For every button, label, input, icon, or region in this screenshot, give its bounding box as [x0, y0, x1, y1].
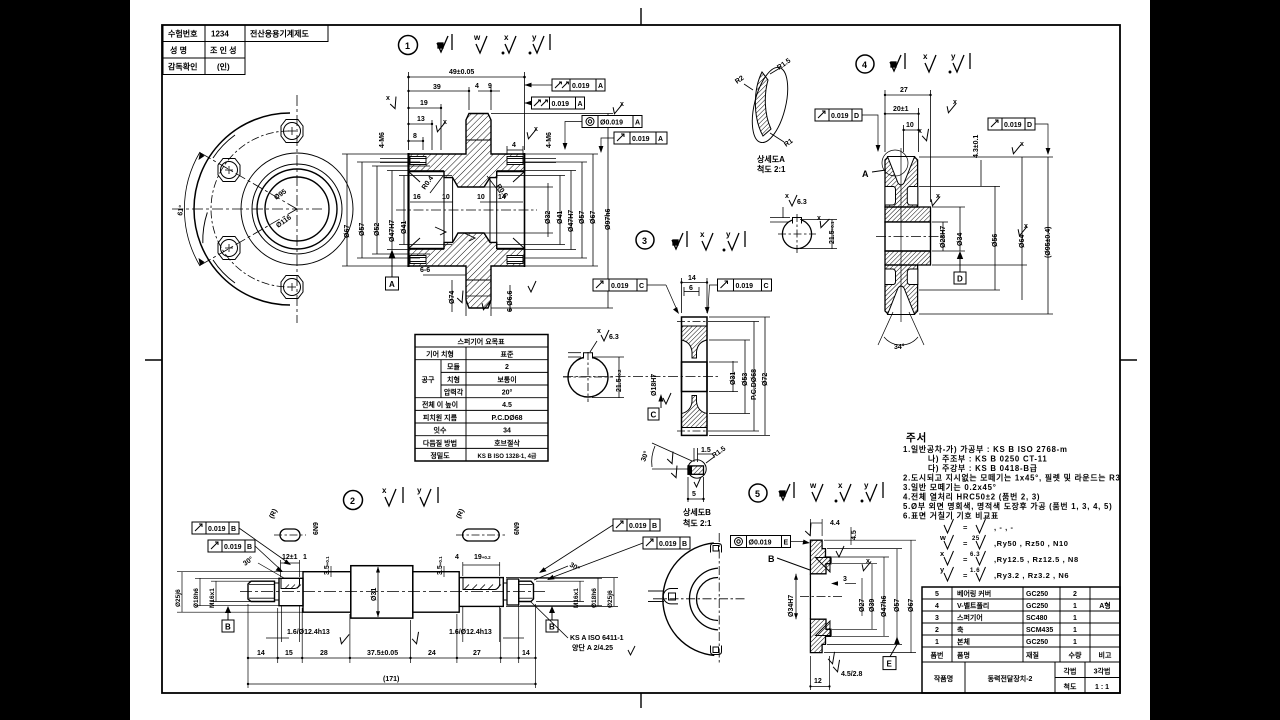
part2 left end dims: [177, 572, 310, 613]
svg-text:14: 14: [257, 650, 265, 657]
svg-text:4.4: 4.4: [830, 520, 840, 527]
drawing frame border: [162, 25, 1120, 693]
svg-text:A: A: [389, 280, 395, 289]
svg-text:Ø32: Ø32: [545, 211, 552, 224]
chamfer diagonals on end bores: [409, 172, 525, 249]
part marker 3: [636, 231, 654, 249]
svg-text:상세도B: 상세도B: [683, 507, 711, 517]
svg-text:0.019: 0.019: [659, 541, 677, 548]
A leader: [872, 170, 886, 172]
svg-text:보통이: 보통이: [497, 375, 516, 384]
bore: [885, 222, 931, 251]
part1 left diameter dim stack: [342, 154, 452, 266]
part5 gdt frame concentricity: [731, 536, 811, 548]
svg-text:Ø56: Ø56: [992, 234, 999, 247]
groove right: [503, 583, 507, 600]
O18 journal: [279, 578, 303, 605]
part3 surface symbols: [672, 230, 745, 251]
svg-text:x: x: [620, 101, 624, 108]
part1 right diameter dim stack: [484, 114, 613, 309]
svg-text:3각법: 3각법: [1094, 667, 1111, 676]
svg-text:1.일반공차-가) 가공부 : KS B ISO 2768-: 1.일반공차-가) 가공부 : KS B ISO 2768-m: [903, 444, 1068, 454]
svg-text:KS B ISO 1328-1, 4급: KS B ISO 1328-1, 4급: [478, 452, 537, 460]
svg-text:4-M6: 4-M6: [379, 132, 386, 148]
svg-text:Ø18h6: Ø18h6: [193, 588, 200, 608]
svg-text:B: B: [682, 541, 687, 548]
svg-text:x: x: [386, 95, 390, 102]
axis centerline: [563, 376, 720, 378]
hub band: [885, 207, 931, 222]
svg-text:Ø74: Ø74: [449, 291, 456, 304]
part2 gdt frames left: [192, 522, 291, 565]
svg-text:6N9: 6N9: [514, 522, 521, 535]
svg-text:Ø97h6: Ø97h6: [605, 208, 612, 230]
svg-text:양단 A 2/4.25: 양단 A 2/4.25: [572, 643, 613, 652]
part3 gear section: [563, 317, 720, 435]
svg-text:P.C.DØ68: P.C.DØ68: [751, 369, 758, 400]
part2 B datum flags: [222, 606, 558, 632]
svg-text:주서: 주서: [906, 431, 927, 444]
svg-text:x: x: [817, 215, 821, 222]
bottom rim/web hatched: [682, 396, 708, 428]
svg-text:20±1: 20±1: [893, 106, 909, 113]
part2 keyway ovals top views: [274, 529, 505, 541]
svg-text:본체: 본체: [957, 637, 970, 646]
parts list table: [922, 587, 1120, 693]
svg-text:16: 16: [413, 194, 421, 201]
svg-text:y: y: [951, 52, 956, 61]
svg-text:9: 9: [488, 83, 492, 90]
svg-text:베어링 커버: 베어링 커버: [957, 589, 991, 598]
gdt frame 2: [525, 97, 585, 109]
svg-text:x: x: [838, 481, 843, 490]
spur gear spec table: [415, 335, 548, 462]
part4 groove angle callout: [878, 312, 924, 345]
part4 right dim stack: [919, 157, 1053, 314]
svg-text:Ø18h6: Ø18h6: [591, 588, 598, 608]
roughness comparison rows: [944, 519, 986, 581]
R0.4 R0.6 leaders: [430, 176, 500, 193]
svg-text:B: B: [231, 526, 236, 533]
svg-text:x: x: [918, 128, 922, 135]
svg-text:조 인 성: 조 인 성: [210, 45, 237, 55]
svg-text:20°: 20°: [502, 389, 513, 397]
top bolt notch: [711, 544, 722, 553]
svg-text:호브절삭: 호브절삭: [494, 438, 520, 447]
svg-text:A: A: [862, 169, 869, 179]
svg-text:B: B: [247, 544, 252, 551]
part1 bottom dims: [423, 270, 510, 316]
svg-text:19+0.2: 19+0.2: [474, 554, 491, 561]
svg-text:Ø41: Ø41: [401, 221, 408, 234]
svg-text:표준: 표준: [501, 351, 514, 359]
top rim hatched: [885, 157, 918, 207]
svg-text:Ø47H7: Ø47H7: [568, 210, 575, 232]
svg-text:GC250: GC250: [1026, 591, 1048, 598]
svg-text:B: B: [768, 554, 775, 564]
part5 E datum flag: [883, 637, 900, 670]
outer edges: [682, 317, 708, 435]
svg-text:19: 19: [420, 100, 428, 107]
svg-text:(인): (인): [217, 62, 230, 72]
svg-text:1: 1: [1073, 615, 1077, 622]
svg-text:Ø31: Ø31: [371, 588, 378, 601]
svg-text:1: 1: [1073, 627, 1077, 634]
svg-text:GC250: GC250: [1026, 603, 1048, 610]
centering tick top: [640, 8, 642, 25]
top rim/web hatched: [682, 326, 708, 358]
svg-text:작품명: 작품명: [934, 674, 953, 683]
part4 top dims: [885, 90, 931, 202]
part3 bore label and datum C: [648, 374, 671, 420]
svg-text:D: D: [1027, 122, 1032, 129]
bolt boss top: [281, 120, 303, 143]
svg-text:0.019: 0.019: [632, 136, 650, 143]
svg-text:피치원 지름: 피치원 지름: [423, 413, 458, 422]
svg-text:Ø47H7: Ø47H7: [389, 220, 396, 242]
svg-text:잇수: 잇수: [434, 426, 447, 435]
svg-text:34: 34: [503, 428, 511, 435]
svg-text:1: 1: [303, 554, 307, 561]
outer rim arc: [194, 113, 290, 305]
svg-text:A: A: [635, 120, 640, 127]
svg-text:, - , -: , - , -: [994, 523, 1014, 532]
left grub boss: [663, 589, 678, 604]
svg-text:5: 5: [692, 491, 696, 498]
svg-text:(Ø95±0.4): (Ø95±0.4): [1045, 227, 1052, 258]
svg-text:공구: 공구: [422, 376, 435, 384]
bolt boss bottom: [281, 276, 303, 299]
part marker 4: [856, 55, 874, 73]
O24: [303, 572, 351, 613]
svg-text:x: x: [785, 193, 789, 200]
svg-text:2: 2: [505, 364, 509, 371]
svg-text:3: 3: [843, 576, 847, 583]
gdt frame 4: [599, 132, 667, 153]
svg-text:y: y: [940, 565, 945, 574]
svg-text:4: 4: [512, 142, 516, 149]
part2 right end dims: [506, 578, 618, 607]
svg-text:모듈: 모듈: [447, 362, 460, 371]
svg-text:y: y: [532, 33, 537, 42]
svg-text:Ø67: Ø67: [590, 211, 597, 224]
svg-text:척도: 척도: [1064, 682, 1077, 691]
svg-text:w: w: [939, 533, 946, 542]
part5 Ø34H7 dim: [788, 574, 798, 619]
svg-text:6.3: 6.3: [609, 334, 619, 341]
svg-text:A: A: [658, 136, 663, 143]
svg-text:10: 10: [442, 194, 450, 201]
svg-text:6-Ø6.6: 6-Ø6.6: [507, 290, 514, 312]
svg-text:Ø25j6: Ø25j6: [175, 589, 182, 607]
part1 hub section view: [396, 114, 537, 309]
svg-text:1.6/Ø12.4h13: 1.6/Ø12.4h13: [449, 629, 492, 636]
V groove bottom (white): [888, 286, 915, 315]
svg-text:C: C: [651, 411, 657, 420]
part4 gdt frame right: [988, 118, 1050, 155]
svg-text:상세도A: 상세도A: [757, 154, 785, 164]
centering tick left: [145, 359, 162, 361]
svg-text:x: x: [1024, 223, 1028, 230]
svg-text:E: E: [784, 540, 789, 547]
svg-text:x: x: [953, 99, 957, 106]
bottom rim hatched: [885, 265, 918, 314]
svg-text:C: C: [764, 283, 769, 290]
svg-text:x: x: [700, 230, 705, 239]
svg-text:0.019: 0.019: [611, 283, 629, 290]
svg-text:B: B: [225, 623, 231, 632]
svg-text:0.019: 0.019: [1004, 122, 1022, 129]
svg-text:E: E: [887, 660, 893, 669]
part4 surface symbols: [890, 52, 970, 73]
svg-text:다듬질 방법: 다듬질 방법: [423, 438, 457, 447]
svg-text:B: B: [652, 523, 657, 530]
svg-text:=: =: [963, 555, 968, 564]
svg-text:스퍼기어: 스퍼기어: [957, 613, 983, 622]
svg-text:P.C.DØ68: P.C.DØ68: [492, 415, 523, 422]
keyway section: [459, 578, 503, 607]
svg-text:재질: 재질: [1026, 651, 1039, 660]
part2 bottom dims: [248, 604, 536, 688]
svg-text:3: 3: [642, 236, 647, 246]
svg-text:x: x: [534, 126, 538, 133]
svg-text:Ø57: Ø57: [359, 223, 366, 236]
svg-text:A형: A형: [1099, 601, 1111, 610]
svg-text:품명: 품명: [957, 651, 970, 660]
svg-text:34°: 34°: [894, 343, 905, 351]
part2 O31 dim: [371, 567, 380, 618]
bolt boss upper-left: [218, 159, 240, 182]
svg-text:Ø0.019: Ø0.019: [600, 120, 623, 127]
svg-text:13: 13: [417, 116, 425, 123]
pitch lines: [677, 321, 712, 323]
part1 scattered surface marks: [388, 97, 622, 311]
exam header table: [163, 25, 328, 75]
svg-text:4.5/2.8: 4.5/2.8: [841, 671, 863, 678]
V groove top (white): [888, 157, 915, 186]
lower hub band: [885, 251, 931, 265]
svg-text:49±0.05: 49±0.05: [449, 69, 474, 76]
svg-text:M16x1: M16x1: [573, 588, 580, 608]
svg-text:y: y: [864, 481, 869, 490]
centering tick right: [1120, 359, 1137, 361]
svg-text:(171): (171): [383, 676, 399, 683]
part marker 5: [749, 484, 767, 502]
svg-text:1.6: 1.6: [970, 568, 980, 574]
svg-text:감독확인: 감독확인: [168, 62, 197, 72]
svg-text:x: x: [936, 193, 940, 200]
svg-text:D: D: [957, 275, 963, 284]
gdt frame 1: [525, 79, 606, 91]
svg-text:4.5: 4.5: [851, 530, 858, 540]
flange centerlines: [172, 95, 322, 323]
part3 gdt frame left: [593, 279, 679, 314]
part4 gdt frame left: [815, 109, 880, 152]
svg-text:1.6/Ø12.4h13: 1.6/Ø12.4h13: [287, 629, 330, 636]
svg-text:21.5+0.1: 21.5+0.1: [829, 221, 836, 244]
svg-text:C: C: [639, 283, 644, 290]
svg-text:수험번호: 수험번호: [168, 29, 198, 39]
svg-text:=: =: [963, 539, 968, 548]
svg-text:39: 39: [433, 84, 441, 91]
svg-text:0.019: 0.019: [831, 113, 849, 120]
O24 right: [413, 572, 459, 613]
small surface marks inside: [435, 227, 475, 241]
part3 keyway circle view: [563, 328, 624, 402]
part1 flange front view (half): [194, 113, 353, 305]
svg-text:비고: 비고: [1099, 651, 1112, 660]
svg-text:Ø25j6: Ø25j6: [607, 590, 614, 608]
svg-text:치형: 치형: [447, 375, 460, 384]
svg-text:D: D: [854, 113, 859, 120]
svg-text:Ø72: Ø72: [762, 373, 769, 386]
svg-text:1: 1: [935, 639, 939, 646]
svg-text:1.5: 1.5: [701, 447, 711, 454]
svg-text:y: y: [726, 230, 731, 239]
svg-text:27: 27: [900, 87, 908, 94]
svg-text:Ø28H7: Ø28H7: [940, 226, 947, 248]
svg-text:6.표면 거칠기 기호 비교표: 6.표면 거칠기 기호 비교표: [903, 511, 999, 521]
bolt boss lower-left: [218, 237, 240, 260]
svg-text:4.전체 열처리 HRC50±2 (품번 2, 3): 4.전체 열처리 HRC50±2 (품번 2, 3): [903, 492, 1040, 502]
part3 top dims: [682, 278, 708, 313]
part4 pulley section: [862, 148, 942, 322]
svg-text:6.3: 6.3: [970, 552, 980, 558]
svg-text:3.5+0.1: 3.5+0.1: [437, 556, 444, 575]
svg-text:정밀도: 정밀도: [430, 451, 450, 460]
svg-text:수량: 수량: [1069, 651, 1082, 660]
svg-text:x: x: [504, 33, 509, 42]
svg-text:14: 14: [688, 275, 696, 282]
svg-text:4: 4: [455, 554, 459, 561]
svg-text:Ø47h6: Ø47h6: [881, 595, 888, 617]
svg-text:4: 4: [935, 603, 939, 610]
centerline: [396, 209, 537, 211]
part2 center hole callout: [530, 601, 568, 638]
centerline: [240, 591, 545, 593]
svg-text:0.019: 0.019: [224, 544, 242, 551]
svg-text:Ø64: Ø64: [1019, 235, 1026, 248]
svg-text:24: 24: [428, 650, 436, 657]
svg-text:0.019: 0.019: [736, 283, 754, 290]
svg-text:1 : 1: 1 : 1: [1095, 684, 1109, 691]
svg-text:척도 2:1: 척도 2:1: [757, 164, 786, 174]
part marker 1: [399, 36, 418, 55]
svg-text:10: 10: [906, 122, 914, 129]
svg-text:Ø34H7: Ø34H7: [788, 595, 795, 617]
svg-text:3.일반 모떼기는 0.2x45°: 3.일반 모떼기는 0.2x45°: [903, 482, 997, 492]
part5 right dim stack: [824, 540, 916, 652]
part4 scattered surface marks: [921, 101, 1027, 237]
gdt frame 3 concentricity: [563, 116, 642, 151]
svg-text:,Ry3.2 , Rz3.2 , N6: ,Ry3.2 , Rz3.2 , N6: [994, 571, 1069, 580]
svg-text:1: 1: [1073, 603, 1077, 610]
detail A indicator circle: [882, 150, 908, 176]
svg-text:5: 5: [755, 489, 760, 499]
svg-text:x: x: [940, 549, 945, 558]
svg-text:x: x: [923, 52, 928, 61]
svg-text:SC480: SC480: [1026, 615, 1048, 622]
svg-text:27: 27: [473, 650, 481, 657]
part5 section view: [768, 540, 842, 652]
svg-text:압력각: 압력각: [444, 388, 464, 397]
svg-text:x: x: [1020, 141, 1024, 148]
svg-text:4-M6: 4-M6: [546, 132, 553, 148]
flange step lines: [466, 139, 491, 141]
centering tick bottom: [640, 693, 642, 708]
svg-text:8: 8: [413, 133, 417, 140]
svg-text:Ø53: Ø53: [742, 373, 749, 386]
thick left/right end edges: [407, 153, 409, 267]
part4 keyway circle detail: [770, 193, 837, 254]
svg-text:y: y: [417, 486, 422, 495]
svg-text:2: 2: [935, 627, 939, 634]
svg-text:Ø41: Ø41: [557, 211, 564, 224]
part1 surface symbols: [437, 33, 550, 54]
svg-text:A: A: [598, 83, 603, 90]
svg-text:x: x: [866, 558, 870, 565]
svg-text:,Ry12.5 , Rz12.5 , N8: ,Ry12.5 , Rz12.5 , N8: [994, 555, 1079, 564]
svg-text:Ø31: Ø31: [730, 372, 737, 385]
svg-text:6-6: 6-6: [420, 267, 430, 274]
svg-text:x: x: [443, 119, 447, 126]
groove: [275, 583, 280, 600]
svg-text:나) 주조부 : KS B 0250 CT-11: 나) 주조부 : KS B 0250 CT-11: [928, 454, 1048, 464]
svg-text:0.019: 0.019: [208, 526, 226, 533]
svg-text:2: 2: [350, 496, 355, 506]
O18 right + M16 right: [507, 579, 519, 605]
wavy web contour: [241, 153, 353, 265]
svg-text:M16x1: M16x1: [209, 588, 216, 608]
svg-text:B: B: [549, 623, 555, 632]
svg-text:21.5+0.2: 21.5+0.2: [616, 369, 623, 392]
svg-text:14: 14: [522, 650, 530, 657]
svg-text:각법: 각법: [1064, 667, 1077, 676]
bolt circle dash-dot: [211, 131, 289, 287]
svg-text:2.도시되고 지시없는 모떼기는 1x45°, 필렛 및 라: 2.도시되고 지시없는 모떼기는 1x45°, 필렛 및 라운드는 R3: [903, 473, 1121, 483]
svg-text:V-벨트풀리: V-벨트풀리: [957, 601, 989, 610]
hub circles: [252, 164, 342, 254]
svg-text:Ø0.019: Ø0.019: [749, 540, 772, 547]
svg-text:25: 25: [972, 536, 980, 542]
svg-text:Ø57: Ø57: [579, 211, 586, 224]
svg-text:동력전달장치-2: 동력전달장치-2: [988, 674, 1033, 683]
svg-text:스퍼기어 요목표: 스퍼기어 요목표: [457, 337, 505, 346]
61 degree dim arc: [184, 152, 200, 266]
svg-text:10: 10: [477, 194, 485, 201]
keyway slot left (top view in section): [281, 578, 300, 588]
svg-text:12: 12: [814, 678, 822, 685]
svg-text:28: 28: [320, 650, 328, 657]
part5 bottom dims: [810, 656, 829, 690]
svg-text:4: 4: [862, 60, 867, 70]
svg-text:4.5: 4.5: [502, 402, 512, 409]
svg-text:5: 5: [935, 591, 939, 598]
svg-text:=: =: [963, 571, 968, 580]
M6 tapped holes in end faces: [410, 157, 523, 264]
svg-text:w: w: [809, 481, 817, 490]
svg-text:15: 15: [285, 650, 293, 657]
part2 shaft outline: [240, 566, 545, 618]
centerlines: [876, 236, 942, 238]
waist notches top (white): [885, 187, 896, 206]
svg-text:x: x: [382, 486, 387, 495]
inner web arcs near rim: [213, 135, 235, 158]
part2 top small dims: [281, 560, 500, 577]
bore: [682, 362, 708, 392]
svg-text:Ø18H7: Ø18H7: [651, 374, 658, 396]
detail B tooth view: [639, 443, 727, 502]
